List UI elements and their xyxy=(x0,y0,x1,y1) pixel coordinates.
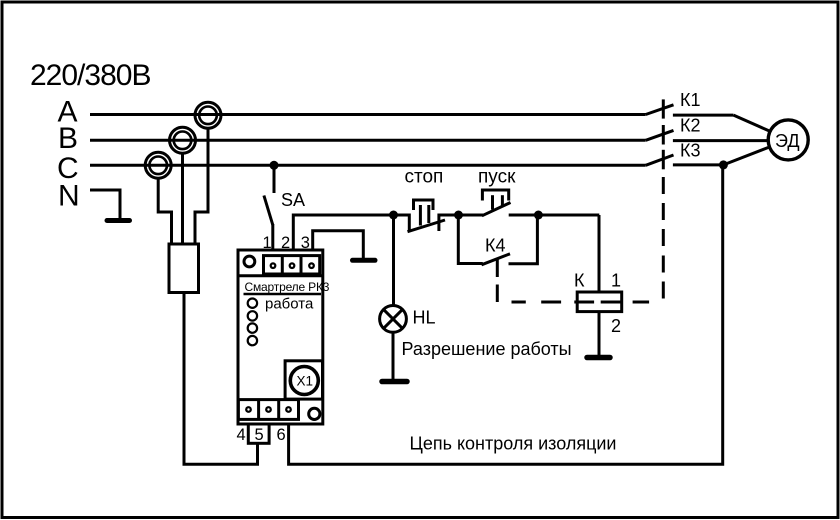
svg-text:5: 5 xyxy=(255,426,264,444)
K3 junction dot xyxy=(719,160,728,169)
relay top terminal strip xyxy=(264,256,320,274)
wire phase A xyxy=(90,113,646,116)
relay top divider xyxy=(238,274,323,277)
svg-text:6: 6 xyxy=(277,426,286,444)
wire HL branch xyxy=(392,215,395,306)
switch SA xyxy=(264,165,274,250)
svg-text:К2: К2 xyxy=(680,116,701,136)
svg-text:работа: работа xyxy=(265,296,314,313)
svg-text:220/380В: 220/380В xyxy=(30,59,150,92)
wire relay terminal 2 to control rail xyxy=(293,215,393,250)
svg-text:B: B xyxy=(58,122,78,155)
wire phase C xyxy=(90,164,646,167)
start button (NO) xyxy=(459,190,600,216)
contact K3 xyxy=(646,147,770,169)
wire HL to ground xyxy=(392,332,395,379)
CT ring on phase A xyxy=(195,102,221,128)
ground N xyxy=(107,218,130,223)
svg-text:N: N xyxy=(58,180,80,213)
relay LED indicators xyxy=(248,299,257,346)
svg-text:1: 1 xyxy=(611,271,621,291)
wire phase B xyxy=(90,139,646,142)
wire from CT ring A to sensor box xyxy=(195,128,208,245)
node C / SA junction dot xyxy=(270,161,279,170)
lamp HL xyxy=(380,306,407,333)
svg-text:стоп: стоп xyxy=(405,167,444,188)
svg-text:SA: SA xyxy=(281,190,305,210)
wire relay terminal 3 to ground xyxy=(313,231,364,258)
wire sensor box to relay terminal 5 xyxy=(184,293,258,465)
svg-text:2: 2 xyxy=(611,316,621,336)
control rail junction dot (stop/HL) xyxy=(389,211,398,220)
relay РК3 body xyxy=(238,250,323,424)
svg-text:4: 4 xyxy=(237,426,246,444)
CT ring on phase C xyxy=(145,152,171,178)
relay bottom terminal strip xyxy=(238,400,298,420)
mechanical link dashed xyxy=(497,177,663,302)
coil K xyxy=(577,292,622,312)
current sensor box xyxy=(169,244,199,293)
relay name underline xyxy=(244,293,322,296)
contact K2 xyxy=(646,125,769,145)
svg-text:Цепь контроля изоляции: Цепь контроля изоляции xyxy=(410,434,617,454)
svg-text:Разрешение работы: Разрешение работы xyxy=(402,339,572,359)
contact K1 xyxy=(646,99,771,131)
contact K4 (self-hold) xyxy=(458,215,537,277)
pusk left junction dot xyxy=(454,211,463,220)
relay bottom mounting hole xyxy=(309,408,320,419)
svg-text:пуск: пуск xyxy=(478,167,516,188)
pusk right junction dot xyxy=(534,211,543,220)
svg-text:К1: К1 xyxy=(680,90,701,110)
connector X1 box xyxy=(285,361,322,399)
svg-text:К4: К4 xyxy=(485,236,506,256)
wire relay terminal 6 to insulation loop xyxy=(289,165,723,464)
stop button (NC) xyxy=(394,200,459,232)
svg-text:ЭД: ЭД xyxy=(775,131,800,151)
connector X1 circle xyxy=(290,367,318,395)
wire from CT ring C to sensor box xyxy=(158,178,171,245)
motor ED xyxy=(768,120,808,160)
ground HL xyxy=(382,379,407,385)
svg-text:Х1: Х1 xyxy=(297,374,314,389)
wire N xyxy=(90,190,120,218)
ground terminal 3 xyxy=(353,258,376,263)
svg-text:К: К xyxy=(574,271,585,291)
ground coil K xyxy=(587,355,610,361)
CT ring on phase B xyxy=(170,127,196,153)
svg-text:HL: HL xyxy=(413,308,436,328)
relay terminal 5 plug box xyxy=(248,424,269,443)
relay top mounting hole xyxy=(244,256,255,267)
wire coil K to ground xyxy=(598,312,601,355)
wire from CT ring B to sensor box xyxy=(181,153,184,245)
svg-text:К3: К3 xyxy=(680,141,701,161)
wire pusk rail to coil K xyxy=(598,215,601,292)
svg-text:Смартреле РК3: Смартреле РК3 xyxy=(245,280,330,294)
